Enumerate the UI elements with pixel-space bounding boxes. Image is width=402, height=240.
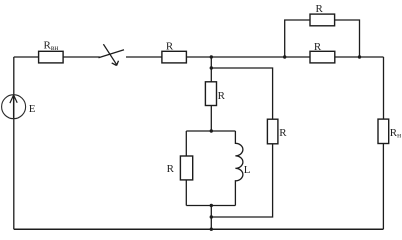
inductor L xyxy=(235,131,250,206)
wire Rн to bottom-right corner xyxy=(382,144,384,230)
wire R3 to node C to top-right corner xyxy=(335,56,384,58)
wire R6 down and left to node G xyxy=(211,144,272,217)
svg-text:R: R xyxy=(316,3,324,15)
wire RL loop bottom xyxy=(186,205,235,207)
wire switch to R1 xyxy=(126,56,162,58)
resistor R1 xyxy=(162,40,187,63)
svg-text:R: R xyxy=(218,90,226,102)
svg-text:R: R xyxy=(167,163,175,175)
resistor R2 (upper parallel) xyxy=(310,3,335,26)
wire R5 to loop bottom xyxy=(185,180,187,206)
resistor Rн xyxy=(378,119,401,143)
wire R1 to node A xyxy=(186,56,211,58)
node G junction (sub-branch rejoins middle branch) xyxy=(210,215,213,218)
wire bottom horizontal xyxy=(14,228,384,230)
svg-text:Rвн: Rвн xyxy=(44,40,59,53)
wire right vertical down to Rн xyxy=(383,57,385,119)
svg-text:R: R xyxy=(166,40,174,52)
wire left vertical (top corner down to bottom wire, through source) xyxy=(13,57,15,229)
wire RL loop left side xyxy=(185,131,187,156)
wire top-left horizontal (source corner to Rвн) xyxy=(14,56,39,58)
wire R4 to node E xyxy=(210,106,212,132)
resistor R3 (lower parallel, in line) xyxy=(310,41,335,63)
svg-text:R: R xyxy=(279,127,287,139)
wire node F down to bottom wire xyxy=(210,206,212,230)
resistor R5 (in RL loop) xyxy=(167,156,193,180)
node B junction (left of parallel pair) xyxy=(283,55,286,58)
node F junction (bottom of RL loop) xyxy=(210,204,213,207)
wire node D to right sub-branch corner xyxy=(211,68,272,119)
svg-text:E: E xyxy=(29,103,36,115)
resistor R6 (right sub-branch vertical) xyxy=(267,119,287,144)
wire R2 to right riser xyxy=(335,20,360,57)
wire node B to R3 xyxy=(285,56,310,58)
wire RL loop top xyxy=(186,130,235,132)
wire node A down to node D xyxy=(210,57,212,82)
node D junction (start of right sub-branch) xyxy=(210,66,213,69)
svg-text:R: R xyxy=(314,41,322,53)
wire Rвн to switch xyxy=(63,56,100,58)
node E junction (top of RL loop) xyxy=(210,129,213,132)
resistor R4 (middle vertical) xyxy=(205,82,225,106)
node A junction xyxy=(210,55,213,58)
resistor Rвн xyxy=(39,40,64,63)
node H junction (middle branch meets bottom wire) xyxy=(210,228,213,231)
wire node A to parallel-pair left junction xyxy=(211,56,284,58)
switch S (blade with closing arrow) xyxy=(99,44,125,65)
wire left riser of parallel pair xyxy=(285,20,310,57)
svg-text:L: L xyxy=(244,164,251,176)
node C junction (right of parallel pair) xyxy=(358,55,361,58)
svg-text:Rн: Rн xyxy=(390,127,401,140)
EMF source E xyxy=(2,95,36,119)
